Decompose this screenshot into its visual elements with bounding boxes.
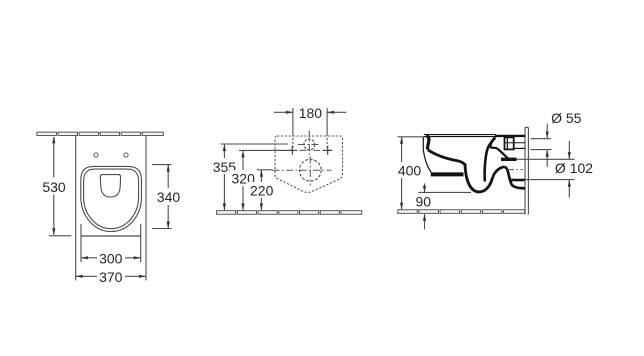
svg-text:Ø 102: Ø 102 xyxy=(555,160,593,176)
svg-text:400: 400 xyxy=(398,163,422,179)
svg-text:220: 220 xyxy=(250,183,274,199)
svg-text:530: 530 xyxy=(42,179,66,195)
svg-text:340: 340 xyxy=(157,189,181,205)
svg-text:90: 90 xyxy=(416,194,432,210)
svg-text:Ø 55: Ø 55 xyxy=(551,110,582,126)
svg-text:370: 370 xyxy=(99,269,123,285)
svg-text:180: 180 xyxy=(299,105,323,121)
svg-text:300: 300 xyxy=(99,250,123,266)
